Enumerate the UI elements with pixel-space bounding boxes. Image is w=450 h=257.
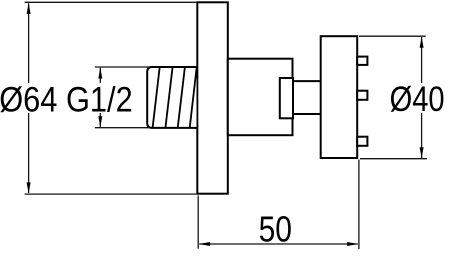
dimension 50: extension line left [197, 196, 199, 249]
dimension G1/2: extension line bottom [95, 127, 150, 129]
handle flange (Ø40, side view) [321, 36, 358, 158]
dimension Ø64: arrow up [27, 3, 31, 14]
dimension 50: arrow left [199, 242, 210, 246]
flange plate (wall escutcheon, side view) [197, 2, 228, 193]
dimension 50: dimension line [199, 243, 357, 245]
thread hatch lines [153, 67, 197, 128]
dimension Ø40: dimension line [421, 37, 423, 158]
dimension Ø64: dimension line [28, 3, 30, 193]
dimension 50: arrow right [347, 242, 358, 246]
dimension Ø40: extension line bottom [360, 158, 427, 160]
label Ø64 G1/2 (white mask) [0, 83, 134, 113]
valve body [228, 59, 293, 136]
square drive boss [280, 78, 293, 118]
stem (neck between body and handle) [293, 81, 321, 114]
dimension 50: extension line right [358, 160, 360, 250]
dimension Ø64: extension line bottom [25, 193, 197, 195]
dimension G1/2: dimension line [99, 68, 101, 127]
dimension G1/2: arrow down [98, 116, 102, 127]
dimension Ø64: extension line top [25, 1, 197, 3]
dimension G1/2: arrow up [98, 67, 102, 78]
dimension Ø40: arrow down [420, 147, 424, 158]
tab 1 (top lug) [357, 57, 367, 65]
dimension Ø40: extension line top [359, 35, 426, 37]
svg-text:Ø64 G1/2: Ø64 G1/2 [0, 80, 133, 119]
label Ø40 (white mask) [389, 83, 447, 113]
dimension G1/2: extension line top [95, 66, 150, 68]
dimension Ø40: arrow up [420, 37, 424, 48]
threaded nipple G1/2 (hatched) [147, 67, 196, 128]
svg-text:50: 50 [259, 209, 292, 250]
dimension Ø64: arrow down [27, 182, 31, 193]
svg-text:Ø40: Ø40 [390, 80, 445, 119]
tab 2 (middle lug) [357, 91, 367, 100]
tab 3 (bottom lug) [357, 137, 367, 146]
